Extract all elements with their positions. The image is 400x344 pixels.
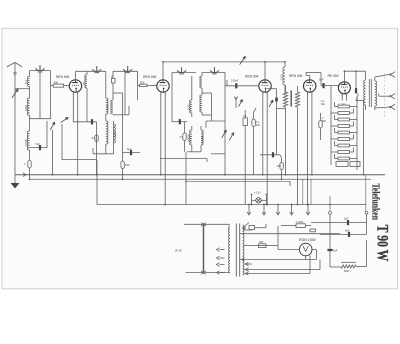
svg-text:950: 950: [54, 80, 59, 84]
svg-text:0.50: 0.50: [113, 131, 117, 137]
svg-text:T 90 W: T 90 W: [374, 225, 391, 261]
svg-text:1.2MΩ: 1.2MΩ: [296, 221, 304, 224]
svg-text:450: 450: [277, 165, 282, 168]
svg-text:5μF: 5μF: [127, 147, 132, 151]
svg-text:4μF: 4μF: [333, 249, 338, 253]
svg-text:528: 528: [259, 241, 264, 244]
svg-text:MΩ: MΩ: [321, 103, 325, 106]
svg-text:RGN 1064: RGN 1064: [299, 238, 316, 242]
svg-text:MΩ: MΩ: [322, 120, 326, 123]
svg-text:0.1: 0.1: [24, 79, 28, 84]
svg-text:0.005: 0.005: [24, 139, 28, 146]
svg-text:20 W: 20 W: [175, 249, 182, 253]
svg-text:450: 450: [125, 163, 130, 167]
svg-text:0.50: 0.50: [186, 104, 190, 110]
svg-text:MΩ: MΩ: [256, 124, 260, 127]
svg-text:REN 904: REN 904: [56, 75, 70, 79]
svg-text:0.005: 0.005: [201, 135, 205, 142]
svg-text:Telefunken: Telefunken: [370, 184, 381, 221]
svg-text:0.0050: 0.0050: [186, 134, 190, 142]
svg-text:0.50: 0.50: [24, 105, 28, 111]
svg-text:REN 904: REN 904: [143, 75, 157, 79]
svg-text:4μF: 4μF: [345, 228, 350, 232]
svg-text:5μF: 5μF: [36, 142, 41, 146]
svg-text:100pF: 100pF: [231, 79, 239, 83]
svg-text:2μF: 2μF: [344, 217, 349, 221]
svg-text:REN 904: REN 904: [289, 74, 303, 78]
svg-text:0.03: 0.03: [280, 74, 284, 80]
svg-text:5nF: 5nF: [319, 78, 324, 82]
svg-text:0.50: 0.50: [106, 104, 110, 110]
svg-text:+1.5V: +1.5V: [254, 191, 261, 195]
svg-text:REN 904: REN 904: [245, 75, 259, 79]
svg-text:950: 950: [140, 80, 145, 84]
svg-text:RE 904: RE 904: [328, 74, 339, 78]
svg-text:6000: 6000: [344, 270, 350, 273]
svg-text:70: 70: [82, 81, 86, 85]
